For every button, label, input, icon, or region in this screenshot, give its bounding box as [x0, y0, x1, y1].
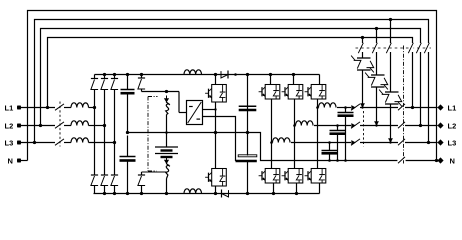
node filter cap L3 bottom [328, 159, 331, 162]
node bypass drop L3 [427, 141, 430, 144]
node leg 1 DC- [272, 192, 275, 195]
wire inverter leg 3 top stub [319, 75, 321, 85]
wire bus cap column [247, 75, 249, 156]
wire rectifier column L1 [94, 75, 96, 79]
wire battery negative link [142, 171, 167, 173]
IGBT Q5 inverter top module [288, 85, 303, 100]
IGBT Q2 boost top module [212, 85, 227, 103]
output terminal N [437, 157, 443, 163]
IGBT Q9 inverter bottom module [311, 169, 326, 184]
switch Q13 maintenance L3 [428, 43, 430, 52]
node bus cap top [246, 73, 249, 76]
node U1 A tap [214, 108, 216, 110]
node filter cap L3 top [328, 141, 331, 144]
node rectifier L3 rail [113, 73, 116, 76]
node boost bottom emitter [214, 192, 217, 195]
node rect cap top [126, 73, 129, 76]
input terminal L3 [17, 141, 21, 145]
switch Q10 inverter output L2 [352, 124, 356, 128]
node boost cap rail [234, 73, 237, 76]
wire Q3 stub bottom [215, 186, 217, 194]
node rectifier L1 phase [93, 106, 96, 109]
input terminal L1 [17, 106, 21, 110]
switch Q1 L2 input [55, 122, 64, 128]
capacitor C6 filter L2 [330, 130, 346, 132]
inductor L4 boost top [184, 70, 201, 75]
node rectifier L2 phase [103, 124, 106, 127]
diode D4 rectifier bottom L1 [91, 174, 98, 176]
node battery diode top rail [140, 73, 143, 76]
capacitor C1 rect upper [121, 89, 135, 91]
wire battery diode bottom [141, 172, 143, 175]
node leg 1 midpoint [270, 141, 273, 144]
wire output L1 [337, 107, 351, 109]
node bypass drop L2 [419, 124, 422, 127]
svg-text:L1: L1 [5, 104, 14, 113]
node filter cap L1 bottom [344, 159, 347, 162]
svg-text:L2: L2 [448, 122, 457, 131]
wire filter cap L2 [337, 126, 339, 131]
diode D3 rectifier top L3 [111, 78, 118, 80]
IGBT Q7 inverter bottom module [265, 169, 280, 184]
wire static column L1 lower [362, 70, 364, 108]
wire inverter leg 1 top stub [270, 75, 272, 85]
svg-text:L3: L3 [448, 139, 457, 148]
wire inverter leg 2 bottom stub [296, 183, 298, 194]
node battery diode bottom rail [140, 192, 143, 195]
wire battery positive [142, 91, 180, 93]
thyristor pair SCR1 L1 [357, 57, 371, 59]
switch Q1 L3 input [55, 139, 64, 145]
node static out L1 [361, 104, 365, 108]
svg-text:L1: L1 [448, 104, 457, 113]
wire inverter leg 1 bottom stub [273, 183, 275, 194]
switch Q11 output isolator L2 [398, 122, 405, 128]
IGBT Q4 inverter top module [265, 85, 280, 100]
node rectifier L3 phase [113, 141, 116, 144]
switch Q10 linkage [363, 111, 365, 147]
inductor L7 output L2 [296, 121, 314, 126]
converter U1 DC/DC box [187, 101, 203, 125]
inductor L8 output L1 [319, 103, 337, 108]
node leg 1 DC+ [269, 73, 272, 76]
node static out L2 [375, 122, 379, 126]
wire U1 out B [203, 117, 236, 162]
wire output L2 [314, 125, 351, 127]
wire rectifier column L3 [114, 75, 116, 79]
node static tap L1 [361, 36, 364, 39]
diode D8 DC- to battery [138, 174, 145, 176]
bypass wire N over top [28, 11, 437, 161]
battery cabinet boundary [147, 97, 149, 172]
node filter cap L2 top [336, 124, 339, 127]
svg-text:N: N [8, 157, 13, 166]
output terminal L1 [437, 104, 443, 110]
node filter cap L1 top [344, 106, 347, 109]
switch Q11 output isolator N [397, 160, 405, 162]
wire boost common [215, 102, 217, 133]
battery BT1 [155, 146, 178, 148]
node rect cap bottom [126, 192, 129, 195]
diode D2 rectifier top L2 [101, 78, 108, 80]
capacitor C5 filter L1 [338, 112, 354, 114]
thyristor pair SCR2 L2 [371, 74, 385, 76]
inductor L6 output L3 [273, 138, 291, 143]
wire inverter leg 3 [317, 99, 319, 169]
wire static column L2 upper [376, 29, 378, 44]
IGBT Q6 inverter top module [311, 85, 326, 100]
wire input L3 [21, 142, 56, 144]
svg-text:L3: L3 [5, 139, 14, 148]
bypass wire L3 over top [35, 20, 429, 143]
node bypass drop L1 [411, 106, 414, 109]
switch Q11 output isolator L3 [398, 139, 405, 145]
wire filter cap L1 [345, 108, 347, 113]
node static tap L2 [375, 27, 378, 30]
wire input L2 [21, 125, 56, 127]
switch Q12 static L3 [386, 43, 391, 53]
inductor input L2 [71, 121, 89, 126]
inductor input L3 [71, 138, 89, 143]
wire input N [21, 160, 28, 162]
switch Q11 output isolator L1 [398, 104, 405, 110]
input terminal N [17, 159, 21, 163]
node leg 2 DC+ [292, 73, 295, 76]
node battery bottom rail [165, 192, 168, 195]
switch Q12 linkage [356, 47, 434, 49]
diode D5 rectifier bottom L2 [101, 174, 108, 176]
node L2 bypass tap [39, 124, 42, 127]
wire static column L3 upper [390, 20, 392, 44]
wire filter cap L3 [329, 143, 331, 151]
switch Q13 maintenance L1 [412, 43, 414, 52]
node bus cap bottom [246, 192, 249, 195]
diode D7 battery to DC+ [138, 77, 145, 79]
diode D10 boost bottom [222, 190, 229, 197]
wire input L1 [21, 107, 56, 109]
capacitor C2 rect lower [120, 156, 136, 158]
diode D9 boost top [221, 71, 228, 78]
input terminal L2 [17, 124, 21, 128]
node leg 2 midpoint [293, 124, 296, 127]
inductor input L1 [71, 103, 89, 108]
node rect cap mid [126, 131, 129, 134]
node battery top [165, 90, 168, 93]
switch Q10 inverter output L3 [352, 141, 356, 145]
node static out L3 [389, 139, 393, 143]
node bus cap mid [246, 131, 249, 134]
switch Q1 L1 input [55, 104, 64, 110]
switch Q12 static L2 [372, 43, 377, 53]
svg-text:L2: L2 [5, 122, 14, 131]
diode D1 rectifier top L1 [91, 78, 98, 80]
wire inverter leg 2 top stub [293, 75, 295, 85]
output terminal L2 [437, 122, 443, 128]
node boost top collector [214, 73, 217, 76]
node battery mid rail [165, 131, 168, 134]
node boost common mid [214, 131, 217, 134]
inductor L5 boost bottom [184, 189, 201, 194]
wire battery diode top [141, 75, 143, 79]
svg-text:N: N [450, 157, 455, 166]
IGBT Q8 inverter bottom module [288, 169, 303, 184]
capacitor C7 filter L3 [322, 150, 338, 152]
node L3 bypass tap [33, 141, 36, 144]
wire Q2 collector stub [215, 75, 217, 85]
wire output L3 [291, 142, 351, 144]
breaker F1 battery top [166, 96, 168, 100]
node static tap L3 [389, 18, 392, 21]
diode D6 rectifier bottom L3 [111, 174, 118, 176]
output terminal L3 [437, 139, 443, 145]
node leg 3 midpoint [316, 106, 319, 109]
switch Q12 static L1 [358, 43, 363, 53]
wire static column L3 lower [390, 104, 392, 143]
node filter cap L2 bottom [336, 159, 339, 162]
neutral mid rail [128, 133, 438, 161]
IGBT Q3 boost bottom module [212, 169, 227, 187]
DC- rail [94, 193, 320, 195]
thyristor pair SCR3 L3 [385, 91, 399, 93]
switch Q13 maintenance L2 [420, 43, 422, 52]
node L1 bypass tap [46, 106, 49, 109]
node bypass drop N [435, 159, 438, 162]
breaker F2 battery bottom [166, 157, 168, 161]
switch Q1 linkage [59, 102, 61, 147]
wire rect cap column [127, 75, 129, 90]
DC+ rail [95, 74, 320, 76]
capacitor C4 bus lower [238, 155, 257, 157]
wire static column L1 upper [362, 38, 364, 44]
wire inverter leg 1 [271, 99, 273, 169]
wire static column L2 lower [376, 87, 378, 126]
wire U1 out A [203, 109, 216, 111]
switch Q10 inverter output L1 [352, 106, 356, 110]
wire inverter leg 3 bottom stub [319, 183, 321, 194]
node rectifier L2 rail [103, 73, 106, 76]
capacitor C3 bus upper [239, 105, 257, 107]
wire inverter leg 2 [294, 99, 296, 169]
static switch boundary [403, 46, 405, 164]
bypass wire L1 over top [48, 38, 413, 108]
node leg 2 DC- [295, 192, 298, 195]
wire rectifier column L2 [104, 75, 106, 79]
bypass wire L2 over top [41, 29, 421, 126]
